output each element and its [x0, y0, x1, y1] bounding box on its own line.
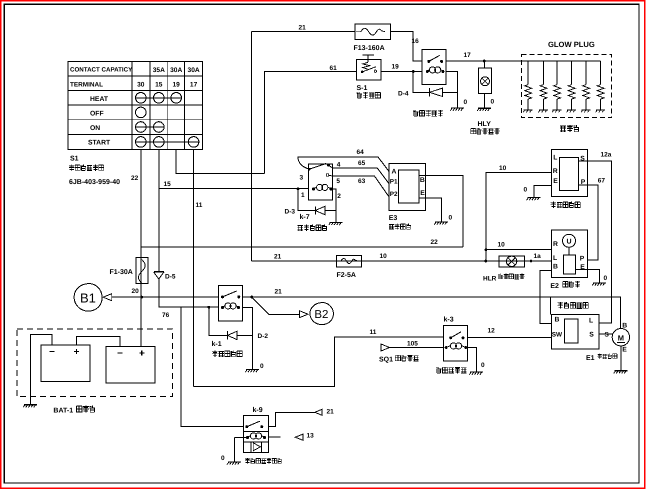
arrow 21	[315, 409, 322, 415]
svg-text:11: 11	[196, 202, 203, 209]
svg-text:11: 11	[370, 329, 377, 336]
svg-text:U: U	[566, 239, 571, 246]
wire k-3 coil to ground	[468, 348, 477, 373]
svg-text:19: 19	[392, 64, 400, 71]
junction dot 10 on E2 R branch	[485, 248, 488, 251]
svg-text:L: L	[553, 255, 557, 262]
svg-text:k-7: k-7	[300, 213, 310, 221]
wire 15 feed to k-7 coil	[159, 188, 309, 190]
svg-text:12: 12	[488, 328, 496, 335]
svg-text:D-3: D-3	[285, 209, 296, 216]
svg-text:1: 1	[301, 192, 305, 199]
svg-text:16: 16	[412, 38, 420, 45]
svg-text:35A: 35A	[153, 67, 165, 74]
resistor glow plug 5	[581, 61, 591, 112]
wire safety relay E to ground	[534, 186, 552, 198]
svg-text:S: S	[605, 332, 610, 339]
diode D-4 branch	[413, 72, 430, 93]
resistor glow plug 2	[538, 61, 548, 112]
svg-text:L: L	[589, 318, 593, 325]
junction dot charge line	[485, 260, 488, 263]
svg-text:CONTACT CAPATICY: CONTACT CAPATICY	[70, 67, 133, 74]
label E1 qidong dianji (starter motor)	[586, 354, 617, 362]
junction dot before E2	[530, 260, 533, 263]
wire S to motor	[599, 333, 612, 335]
label yure kaiguan (preheat switch)	[357, 92, 381, 98]
label dianchi jidianqi (battery relay)	[212, 351, 242, 357]
svg-text:76: 76	[162, 312, 170, 319]
wire 17 from relay to glow plugs	[446, 60, 600, 62]
svg-text:A: A	[392, 169, 397, 176]
junction dot k-1 out	[250, 296, 253, 299]
wire 61 riser and horizontal to switch S-1	[265, 72, 357, 174]
svg-text:L: L	[553, 155, 557, 162]
arrow 13	[295, 434, 303, 440]
svg-text:0: 0	[449, 215, 453, 222]
svg-text:S-1: S-1	[357, 85, 368, 92]
ground motor E1	[614, 371, 628, 374]
ground preheat relay	[450, 108, 464, 111]
svg-text:21: 21	[327, 409, 335, 416]
svg-text:12a: 12a	[601, 152, 612, 159]
diode D-3 branch	[298, 189, 315, 211]
wire k-9 coil left to ground	[234, 438, 247, 462]
wire 64 from pin 3 to E3 A	[298, 157, 389, 172]
label yure jidianqi (preheat relay)	[413, 110, 443, 116]
svg-text:HLY: HLY	[478, 121, 492, 128]
svg-text:S1: S1	[70, 156, 79, 163]
svg-text:0: 0	[221, 455, 225, 462]
svg-text:D-2: D-2	[258, 333, 269, 340]
label HLR chongdian zhishideng	[483, 274, 524, 283]
wire 11 vertical from terminal 17 down	[193, 150, 195, 387]
svg-text:F1-30A: F1-30A	[110, 269, 133, 276]
device E3 parking motor box	[389, 164, 425, 211]
junction dot HLY tap	[483, 60, 486, 63]
svg-text:0: 0	[481, 362, 485, 369]
label qidong jidianqi (starter relay)	[558, 302, 588, 308]
wire 22 vertical from terminal 30 down to battery feed	[140, 150, 142, 347]
svg-text:64: 64	[357, 149, 365, 156]
svg-text:B: B	[555, 317, 560, 324]
junction k-7 coil left	[297, 187, 300, 190]
node B2	[310, 303, 333, 325]
svg-text:E1: E1	[586, 355, 595, 362]
svg-text:ON: ON	[90, 125, 100, 132]
wire 10 from R pin to charge line	[486, 173, 552, 261]
svg-text:2: 2	[337, 193, 341, 200]
svg-text:P2: P2	[390, 191, 398, 198]
wire 12 k-3 to starter relay SW	[468, 337, 552, 339]
svg-text:P1: P1	[390, 179, 398, 186]
stub into starter relay box	[550, 297, 552, 315]
lamp HLY preheat indicator	[478, 61, 491, 108]
label yure zhishideng (preheat indicator lamp)	[471, 128, 500, 134]
svg-text:3: 3	[300, 175, 304, 182]
wire battery negative to ground	[30, 334, 52, 404]
svg-text:R: R	[553, 241, 558, 248]
svg-text:GLOW PLUG: GLOW PLUG	[548, 40, 595, 49]
ground safety relay E	[527, 198, 541, 201]
relay k-3 lock relay	[443, 326, 467, 361]
svg-text:k-1: k-1	[212, 340, 222, 348]
wire 22 horizontal	[141, 246, 463, 248]
relay preheat relay box	[422, 50, 446, 85]
svg-text:21: 21	[299, 24, 307, 31]
wire branch to B2	[252, 297, 300, 314]
diode D-5	[154, 272, 164, 280]
label yanshi duandian jidianqi (time delay relay)	[245, 458, 282, 464]
svg-text:30: 30	[137, 82, 145, 89]
svg-text:65: 65	[358, 160, 366, 167]
svg-text:E3: E3	[389, 215, 398, 222]
svg-text:21: 21	[275, 289, 283, 296]
svg-text:P: P	[580, 255, 585, 262]
wire 63 from pin 5 to E3 P2	[333, 176, 390, 197]
label suoding jidianqi (lock relay)	[436, 367, 466, 373]
svg-text:17: 17	[190, 82, 198, 89]
svg-text:BAT-1: BAT-1	[53, 408, 73, 415]
label tingche mada (parking motor)	[389, 224, 411, 230]
svg-text:10: 10	[499, 165, 507, 172]
svg-text:S: S	[589, 332, 594, 339]
svg-text:22: 22	[131, 175, 139, 182]
svg-text:B: B	[420, 177, 425, 184]
wire 67 from P pin down to E2 P	[579, 185, 598, 260]
arrow SQ1 pilot switch	[381, 344, 390, 351]
junction dot battery feed	[140, 296, 143, 299]
svg-text:R: R	[553, 168, 558, 175]
wire coil right to ground	[446, 72, 457, 109]
wire main feed k-1 to motor B	[243, 297, 621, 329]
svg-text:1a: 1a	[534, 253, 542, 260]
ground HLY	[477, 108, 491, 111]
svg-text:22: 22	[431, 239, 439, 246]
wire 65 from pin 4 to E3 P1	[333, 168, 390, 184]
svg-text:HEAT: HEAT	[90, 96, 109, 103]
wire 15 vertical from terminal 15 down to diode D-5	[158, 150, 160, 271]
svg-text:17: 17	[464, 52, 472, 59]
svg-text:B2: B2	[314, 309, 328, 321]
relay k-1 battery relay	[219, 286, 243, 322]
label qidong suoshi kaiguan (ignition key switch)	[69, 165, 103, 171]
svg-text:SQ1: SQ1	[379, 357, 393, 364]
wire 21 top horizontal to fuse F13	[251, 31, 354, 33]
ground E3	[434, 222, 448, 225]
svg-text:67: 67	[598, 177, 606, 184]
relay k-9 time delay cutoff relay	[244, 415, 269, 452]
svg-text:5: 5	[336, 178, 340, 185]
arrow into B2	[299, 311, 308, 318]
svg-text:E: E	[622, 347, 627, 354]
svg-text:13: 13	[307, 433, 315, 440]
svg-text:15: 15	[164, 181, 172, 188]
glow plug dashed box	[521, 55, 611, 118]
junction dot wire19-D4	[412, 70, 415, 73]
svg-text:OFF: OFF	[90, 110, 104, 117]
svg-text:4: 4	[337, 162, 341, 169]
label E2 fadianji (generator)	[550, 281, 580, 290]
wire feed to k-9	[181, 307, 244, 427]
svg-text:20: 20	[132, 288, 140, 295]
svg-text:10: 10	[380, 253, 388, 260]
ground battery	[23, 405, 37, 408]
wire 12a from S pin down to starter relay L	[579, 161, 612, 323]
svg-text:k-3: k-3	[444, 316, 454, 324]
svg-text:0: 0	[260, 363, 264, 370]
wire 15 continues below D-5 to k-1 coil	[159, 279, 219, 307]
wire battery series link	[76, 336, 119, 346]
diode D-2 branch	[209, 307, 228, 335]
svg-text:10: 10	[498, 242, 506, 249]
switch S-1 preheat switch	[357, 55, 382, 80]
wire k-1 coil right to ground	[243, 308, 253, 370]
svg-text:63: 63	[358, 178, 366, 185]
lamp HLR charge indicator	[499, 256, 525, 267]
svg-text:0: 0	[464, 99, 468, 106]
table S1 ignition switch contact table	[68, 61, 203, 149]
arrow into B1	[103, 294, 112, 301]
svg-text:HLR: HLR	[483, 276, 497, 283]
ground k-9	[227, 462, 241, 465]
wire 21 riser from table area to top run	[250, 32, 252, 261]
relay safety relay	[552, 150, 588, 197]
resistor glow plug 6	[596, 61, 606, 112]
wire k-7 pin2 to ground	[333, 189, 336, 222]
wire 19 from S-1 to preheat relay coil	[381, 71, 422, 73]
ground k-7	[329, 222, 343, 225]
resistor glow plug 1	[523, 61, 533, 112]
svg-text:D-4: D-4	[398, 91, 409, 98]
wire E2 B pin to starter relay B	[540, 271, 552, 324]
resistor glow plug 4	[567, 61, 577, 112]
svg-text:E: E	[420, 190, 425, 197]
battery cell 1	[41, 345, 90, 382]
svg-text:F2-5A: F2-5A	[337, 272, 356, 279]
junction dot to D-2	[207, 306, 210, 309]
svg-text:B1: B1	[80, 290, 96, 305]
fuse F2-5A	[337, 255, 362, 267]
relay k-7 parking relay	[308, 164, 333, 201]
svg-text:30A: 30A	[170, 67, 182, 74]
resistor glow plug 3	[552, 61, 562, 112]
svg-text:F13-160A: F13-160A	[354, 45, 385, 52]
label yuresai (glow plug)	[560, 125, 579, 132]
relay starter relay box	[552, 315, 600, 350]
node B1 battery terminal	[74, 284, 102, 312]
generator E2 box	[551, 230, 587, 278]
wire 105 to k-3 coil	[390, 347, 444, 349]
fuse F1-30A	[136, 258, 148, 284]
label tingche jidianqi (parking relay)	[298, 225, 327, 231]
svg-text:B: B	[553, 264, 558, 271]
junction dot wire22 top	[140, 246, 142, 248]
wire 22 E3 B pin riser	[419, 175, 463, 247]
svg-text:19: 19	[173, 82, 181, 89]
ground E2	[592, 283, 606, 286]
ground k-3	[469, 372, 483, 375]
label BAT-1 xudianchi (battery)	[53, 406, 95, 415]
wire k-9 coil out 13	[268, 436, 280, 438]
wire 21 horizontal to F2-5A and E2 L	[251, 260, 551, 262]
svg-text:k-9: k-9	[253, 406, 263, 414]
wire k-9 out 21	[268, 412, 315, 426]
svg-text:0: 0	[491, 99, 495, 106]
ground k-1	[245, 370, 259, 373]
wire E3 E to ground	[419, 198, 442, 222]
svg-text:E2: E2	[550, 283, 559, 290]
svg-text:B: B	[622, 323, 627, 330]
wire battery positive riser	[141, 346, 143, 349]
wire motor to ground	[620, 346, 622, 371]
svg-text:D-5: D-5	[165, 274, 176, 281]
svg-text:SW: SW	[552, 331, 563, 338]
fuse F13-160A	[355, 24, 391, 39]
svg-text:START: START	[88, 140, 111, 147]
svg-text:15: 15	[155, 82, 163, 89]
svg-text:21: 21	[274, 254, 282, 261]
wire 19 from terminal 19 down and right to 61 riser	[176, 150, 265, 174]
svg-text:30A: 30A	[188, 67, 200, 74]
svg-text:E: E	[553, 178, 558, 185]
label anquan jidianqi (safety relay)	[551, 202, 581, 208]
wire 20 from B1 to k-1	[112, 296, 219, 298]
svg-text:TERMINAL: TERMINAL	[70, 81, 103, 88]
wire 10 branch to E2 R pin	[486, 249, 551, 251]
battery cell 2	[106, 347, 155, 384]
svg-text:0: 0	[524, 187, 528, 194]
label SQ1 xiandao kaiguan (pilot switch)	[379, 355, 419, 364]
svg-text:61: 61	[330, 65, 338, 72]
wire 16 from fuse to preheat relay	[391, 32, 422, 61]
svg-text:M: M	[618, 333, 624, 342]
wire E2 E pin to ground	[576, 270, 600, 283]
svg-text:0: 0	[604, 275, 608, 282]
wire 11 bottom run to k-3	[194, 337, 444, 387]
battery BAT-1 dashed box	[17, 329, 173, 397]
svg-text:6JB-403-959-40: 6JB-403-959-40	[69, 179, 120, 186]
svg-text:105: 105	[407, 341, 418, 348]
motor E1 starter motor	[612, 329, 629, 346]
